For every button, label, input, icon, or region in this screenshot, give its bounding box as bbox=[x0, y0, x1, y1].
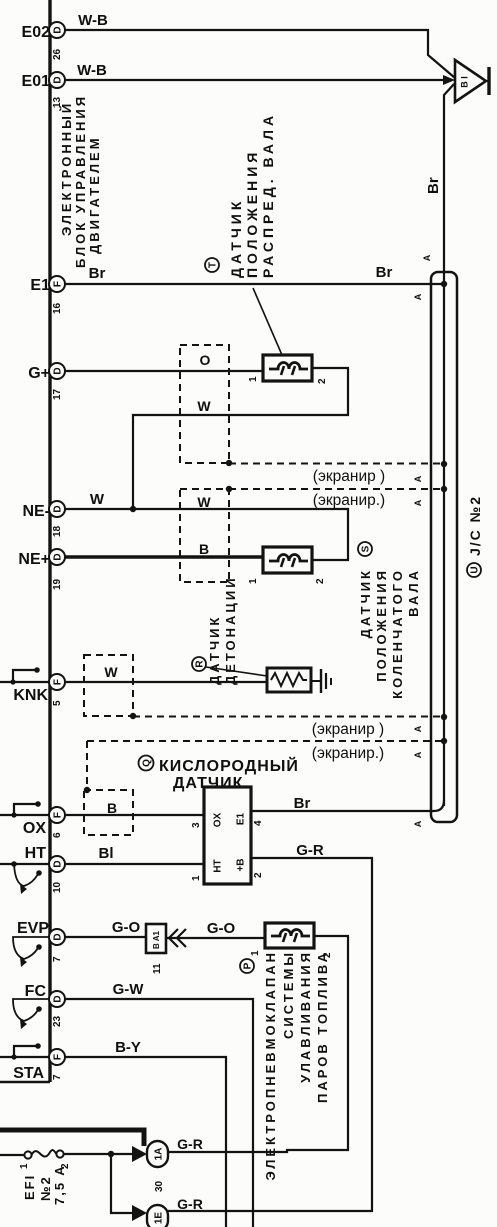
junction crank shield box bbox=[226, 486, 232, 492]
svg-text:БЛОК УПРАВЛЕНИЯ: БЛОК УПРАВЛЕНИЯ bbox=[73, 94, 88, 268]
junction node on NE- wire bbox=[130, 506, 136, 512]
EVAP valve solenoid coil P (ЭЛЕКТРОПНЕВМОКЛАПАН) bbox=[265, 923, 314, 948]
label P EVAP valve bbox=[240, 959, 254, 973]
svg-text:W: W bbox=[90, 491, 105, 508]
svg-text:1A: 1A bbox=[154, 1148, 165, 1161]
wire EVP G-O to connector BA1 bbox=[65, 919, 146, 937]
svg-text:B: B bbox=[199, 541, 209, 557]
svg-text:P: P bbox=[243, 962, 254, 969]
svg-text:11: 11 bbox=[152, 963, 163, 974]
svg-text:СИСТЕМЫ: СИСТЕМЫ bbox=[281, 950, 296, 1039]
svg-text:T: T bbox=[208, 262, 219, 268]
svg-text:РАСПРЕД. ВАЛА: РАСПРЕД. ВАЛА bbox=[260, 112, 276, 278]
svg-text:A: A bbox=[413, 475, 423, 482]
svg-text:ПАРОВ ТОПЛИВА: ПАРОВ ТОПЛИВА bbox=[315, 950, 330, 1103]
page-link chevrons at BA1 bbox=[169, 929, 186, 947]
svg-text:Br: Br bbox=[294, 795, 311, 812]
svg-text:ЭЛЕКТРОННЫЙ: ЭЛЕКТРОННЫЙ bbox=[59, 101, 74, 236]
svg-text:G+: G+ bbox=[28, 365, 50, 382]
J/C No2 junction connector box bbox=[431, 272, 457, 822]
wire HT stub from harness (left edge) bbox=[0, 863, 49, 865]
svg-text:Q: Q bbox=[142, 759, 153, 767]
svg-text:ДАТЧИК: ДАТЧИК bbox=[228, 198, 244, 278]
svg-text:F: F bbox=[53, 812, 64, 818]
svg-text:23: 23 bbox=[52, 1015, 63, 1027]
svg-text:(экранир.): (экранир.) bbox=[313, 492, 385, 509]
terminal OX (pin 6, connector F) bbox=[23, 807, 65, 838]
svg-text:1: 1 bbox=[248, 578, 259, 584]
junction on STA stub bbox=[11, 1054, 16, 1059]
leader line from label R to knock sensor bbox=[206, 667, 267, 676]
camshaft position sensor coil T bbox=[263, 355, 312, 381]
wire branch down to connector 1E bbox=[111, 1154, 132, 1213]
wire STA B-Y down off page bbox=[65, 1039, 226, 1227]
svg-text:2: 2 bbox=[317, 378, 328, 384]
terminal NE- (pin 18, connector D) bbox=[22, 501, 65, 537]
label U J/C No2 bbox=[467, 495, 483, 577]
terminal E02 (pin 26, connector D) bbox=[22, 22, 65, 60]
connector BA1 (pin 11) bbox=[146, 924, 166, 974]
svg-text:A: A bbox=[413, 293, 423, 300]
fuse EFI No2 7.5A bbox=[0, 1150, 132, 1159]
svg-text:Br: Br bbox=[376, 264, 393, 281]
svg-text:G-R: G-R bbox=[177, 1196, 203, 1212]
junction KNK shield box bbox=[130, 713, 136, 719]
svg-text:D: D bbox=[53, 505, 64, 512]
label Q oxygen sensor (КИСЛОРОДНЫЙ ДАТЧИК) bbox=[139, 756, 299, 793]
svg-text:STA: STA bbox=[13, 1065, 44, 1082]
wire FC G-W down off page bbox=[65, 981, 253, 1227]
svg-text:B I: B I bbox=[460, 76, 470, 88]
svg-text:O: O bbox=[200, 352, 211, 368]
svg-text:19: 19 bbox=[52, 578, 63, 590]
svg-text:КОЛЕНЧАТОГО: КОЛЕНЧАТОГО bbox=[390, 568, 405, 699]
junction on OX stub bbox=[11, 812, 16, 817]
svg-text:W: W bbox=[197, 494, 211, 510]
svg-text:(экранир ): (экранир ) bbox=[313, 468, 385, 485]
junction fuse output branch bbox=[108, 1151, 114, 1157]
svg-text:7: 7 bbox=[52, 956, 63, 962]
svg-text:G-W: G-W bbox=[113, 981, 145, 998]
shield drain wire (экранир) cam sensor to J/C bbox=[229, 464, 444, 486]
wire E01 W-B to ground point bbox=[65, 62, 455, 85]
svg-text:G-R: G-R bbox=[177, 1136, 203, 1152]
svg-text:+B: +B bbox=[236, 858, 247, 871]
svg-text:E01: E01 bbox=[22, 73, 51, 90]
wire G+ to camshaft sensor pin 1 bbox=[65, 370, 263, 372]
shield box around crank sensor wires (dashed) with W and B colour labels bbox=[180, 489, 229, 582]
svg-text:B-Y: B-Y bbox=[115, 1039, 141, 1056]
ECU internal branch arrow (KNK) bbox=[13, 667, 40, 682]
oxygen sensor shield dashed left edge bbox=[86, 741, 88, 790]
svg-text:A: A bbox=[413, 725, 423, 732]
label T camshaft position sensor (ДАТЧИК ПОЛОЖЕНИЯ РАСПРЕД. ВАЛА) bbox=[205, 112, 276, 278]
svg-text:10: 10 bbox=[52, 881, 63, 893]
svg-text:D: D bbox=[53, 553, 64, 560]
svg-text:A: A bbox=[413, 751, 423, 758]
svg-text:ПОЛОЖЕНИЯ: ПОЛОЖЕНИЯ bbox=[244, 149, 260, 278]
svg-text:13: 13 bbox=[52, 96, 63, 108]
svg-text:(экранир ): (экранир ) bbox=[312, 721, 384, 738]
svg-text:EVP: EVP bbox=[17, 920, 49, 937]
terminal E01 (pin 13, connector D) bbox=[22, 72, 65, 108]
label S crankshaft position sensor (ДАТЧИК ПОЛОЖЕНИЯ КОЛЕНЧАТОГО ВАЛА) bbox=[358, 542, 421, 699]
terminal KNK (pin 5, connector F) bbox=[13, 674, 65, 706]
shield box around cam sensor wires (dashed) with O and W colour labels bbox=[180, 345, 229, 463]
svg-text:B: B bbox=[107, 800, 117, 816]
svg-text:R: R bbox=[195, 660, 206, 668]
svg-text:30: 30 bbox=[154, 1180, 165, 1192]
terminal E1 (pin 16, connector F) bbox=[30, 276, 65, 314]
ECU internal branch arrow (OX) bbox=[14, 801, 41, 815]
svg-text:1: 1 bbox=[248, 376, 259, 382]
svg-text:NE+: NE+ bbox=[18, 551, 50, 568]
svg-text:D: D bbox=[53, 26, 64, 33]
svg-text:S: S bbox=[361, 545, 372, 552]
svg-text:ДВИГАТЕЛЕМ: ДВИГАТЕЛЕМ bbox=[87, 135, 102, 254]
svg-text:B A1: B A1 bbox=[152, 931, 161, 949]
svg-text:1E: 1E bbox=[154, 1212, 165, 1225]
arrow into connector 1A bbox=[132, 1146, 147, 1162]
svg-text:3: 3 bbox=[191, 822, 202, 828]
svg-text:KNK: KNK bbox=[13, 687, 48, 704]
svg-text:Br: Br bbox=[425, 177, 442, 194]
svg-text:1: 1 bbox=[191, 875, 202, 881]
svg-text:7,5 A: 7,5 A bbox=[52, 1164, 67, 1205]
wire KNK W to knock sensor bbox=[65, 681, 267, 683]
svg-text:D: D bbox=[53, 367, 64, 374]
ECU internal symbol (EVP driver) bbox=[13, 937, 49, 967]
svg-text:E1: E1 bbox=[236, 812, 247, 825]
svg-text:№2: №2 bbox=[38, 1175, 53, 1201]
svg-text:E1: E1 bbox=[30, 277, 50, 294]
wire E1 Br to J/C No2 bbox=[65, 264, 444, 284]
svg-text:ДЕТОНАЦИИ: ДЕТОНАЦИИ bbox=[223, 575, 238, 685]
junction on KNK stub bbox=[10, 679, 15, 684]
leader line from label T to cam sensor bbox=[253, 288, 282, 355]
svg-text:26: 26 bbox=[52, 48, 63, 60]
svg-text:Br: Br bbox=[89, 265, 106, 282]
terminal EVP (pin 7, connector D) bbox=[17, 920, 65, 962]
ECU box edge (electronic engine control unit boundary) bbox=[0, 0, 50, 1082]
svg-text:G-R: G-R bbox=[296, 842, 324, 859]
svg-text:W-B: W-B bbox=[78, 12, 108, 29]
svg-text:W: W bbox=[197, 398, 211, 414]
svg-text:17: 17 bbox=[52, 388, 63, 400]
wire NE- W to crankshaft sensor pin 2 bbox=[65, 491, 348, 560]
svg-text:18: 18 bbox=[52, 525, 63, 537]
oxygen sensor shield dashed edge to J/C (экранир.) bbox=[87, 741, 444, 762]
svg-text:HT: HT bbox=[25, 845, 47, 862]
ground (knock sensor case) bbox=[311, 669, 331, 693]
svg-text:ЭЛЕКТРОПНЕВМОКЛАПАН: ЭЛЕКТРОПНЕВМОКЛАПАН bbox=[263, 950, 278, 1180]
ECU internal branch arrow (STA) bbox=[14, 1043, 41, 1057]
connector 1E bbox=[147, 1205, 168, 1227]
junction oxygen shield bbox=[84, 787, 90, 793]
knock sensor R (piezo element) bbox=[267, 668, 311, 692]
svg-text:1: 1 bbox=[250, 950, 261, 956]
svg-text:6: 6 bbox=[52, 832, 63, 838]
svg-text:F: F bbox=[53, 281, 64, 287]
wire STA stub from harness (left edge) bbox=[0, 1056, 49, 1058]
svg-text:ПОЛОЖЕНИЯ: ПОЛОЖЕНИЯ bbox=[374, 568, 389, 682]
wire EVAP valve pin 2 loop down to connector 1A G-R bbox=[168, 936, 348, 1152]
svg-text:G-O: G-O bbox=[112, 919, 141, 936]
svg-text:OX: OX bbox=[23, 820, 46, 837]
J/C No2 internal bus wire bend to Br output bbox=[251, 800, 444, 811]
terminal STA (pin 7, connector F) bbox=[13, 1049, 65, 1082]
crankshaft position sensor coil S bbox=[263, 547, 312, 573]
shield drain wire (экранир) KNK to J/C bbox=[133, 717, 444, 739]
svg-text:A: A bbox=[413, 499, 423, 506]
svg-text:1: 1 bbox=[19, 1163, 30, 1169]
fuse name text EFI No2 7,5 A bbox=[22, 1164, 67, 1205]
svg-text:ДАТЧИК: ДАТЧИК bbox=[358, 568, 373, 638]
svg-text:D: D bbox=[53, 860, 64, 867]
junction shield box to shield wire bbox=[226, 460, 232, 466]
terminal NE+ (pin 19, connector D) bbox=[18, 549, 65, 590]
svg-text:(экранир.): (экранир.) bbox=[312, 745, 384, 762]
svg-text:W-B: W-B bbox=[77, 62, 107, 79]
svg-text:16: 16 bbox=[52, 302, 63, 314]
wire E02 W-B to ground point bbox=[65, 12, 455, 78]
svg-text:2: 2 bbox=[253, 872, 264, 878]
arrow into connector 1E bbox=[132, 1205, 147, 1221]
wire OX B to oxygen sensor pin 3 bbox=[65, 814, 204, 816]
svg-text:D: D bbox=[53, 933, 64, 940]
ECU internal symbol (FC driver) bbox=[13, 999, 49, 1029]
svg-text:2: 2 bbox=[315, 578, 326, 584]
svg-text:ВАЛА: ВАЛА bbox=[406, 568, 421, 617]
shield box around OX wire (dashed) with B colour label bbox=[84, 790, 133, 835]
svg-text:КИСЛОРОДНЫЙ: КИСЛОРОДНЫЙ bbox=[159, 756, 299, 775]
ground BI (body ground point triangle) bbox=[455, 60, 489, 102]
svg-text:W: W bbox=[104, 664, 118, 680]
battery feed wire (thick) to connector 1A bbox=[0, 1130, 144, 1146]
wire NE+ B to crankshaft sensor pin 1 (thick) bbox=[65, 555, 263, 559]
svg-text:D: D bbox=[53, 76, 64, 83]
svg-text:D: D bbox=[53, 995, 64, 1002]
EVAP valve name text (ЭЛЕКТРОПНЕВМОКЛАПАН СИСТЕМЫ УЛАВЛИВАНИЯ ПАРОВ ТОПЛИВА) bbox=[263, 950, 330, 1180]
svg-text:EFI: EFI bbox=[22, 1174, 37, 1200]
ECU label text (vertical) ЭЛЕКТРОННЫЙ БЛОК УПРАВЛЕНИЯ ДВИГАТЕЛЕМ bbox=[59, 94, 102, 268]
svg-text:УЛАВЛИВАНИЯ: УЛАВЛИВАНИЯ bbox=[298, 950, 313, 1083]
wire Br vertical from ground point down to J/C No2 bbox=[425, 84, 454, 806]
svg-text:G-O: G-O bbox=[207, 920, 236, 937]
svg-text:U: U bbox=[470, 566, 481, 573]
wire cam sensor pin 2 loop down to NE- node bbox=[133, 368, 348, 509]
connector 1A (pin 30) bbox=[147, 1141, 168, 1192]
junction on HT stub bbox=[11, 861, 17, 867]
wire G-O from BA1 to EVAP valve pin 1 bbox=[166, 920, 265, 938]
svg-text:FC: FC bbox=[25, 983, 47, 1000]
terminal G+ (pin 17, connector D) bbox=[28, 363, 65, 400]
svg-text:Bl: Bl bbox=[99, 845, 114, 862]
svg-text:F: F bbox=[53, 1054, 64, 1060]
wire HT Bl to oxygen sensor pin 1 bbox=[65, 845, 204, 864]
svg-text:4: 4 bbox=[253, 820, 264, 826]
shield box around KNK wire (dashed) with W colour label bbox=[84, 655, 133, 716]
svg-text:A: A bbox=[422, 254, 432, 261]
junction on J/C bus (E1 Br) bbox=[441, 281, 447, 287]
svg-text:A: A bbox=[413, 820, 423, 827]
svg-text:5: 5 bbox=[52, 700, 63, 706]
svg-text:NE-: NE- bbox=[22, 503, 50, 520]
svg-text:J/C №2: J/C №2 bbox=[467, 495, 483, 556]
label R knock sensor (ДАТЧИК ДЕТОНАЦИИ) bbox=[192, 575, 238, 685]
svg-text:E02: E02 bbox=[22, 24, 51, 41]
svg-text:OX: OX bbox=[213, 812, 224, 827]
svg-text:F: F bbox=[53, 679, 64, 685]
svg-text:ДАТЧИК: ДАТЧИК bbox=[207, 615, 222, 685]
wire OX stub from harness (left edge) bbox=[0, 814, 49, 816]
wire KNK stub from harness (left edge) bbox=[0, 681, 49, 683]
oxygen sensor connector block bbox=[204, 787, 251, 884]
wire G-R from oxygen pin 2 down to connector 1E bbox=[168, 842, 372, 1211]
shield drain wire (экранир.) crank sensor to J/C bbox=[229, 489, 444, 509]
svg-text:7: 7 bbox=[52, 1074, 63, 1080]
ECU internal driver symbol (HT) bbox=[14, 864, 42, 894]
terminal FC (pin 23, connector D) bbox=[25, 983, 65, 1027]
terminal HT (pin 10, connector D) bbox=[25, 845, 65, 893]
svg-text:HT: HT bbox=[213, 859, 224, 872]
